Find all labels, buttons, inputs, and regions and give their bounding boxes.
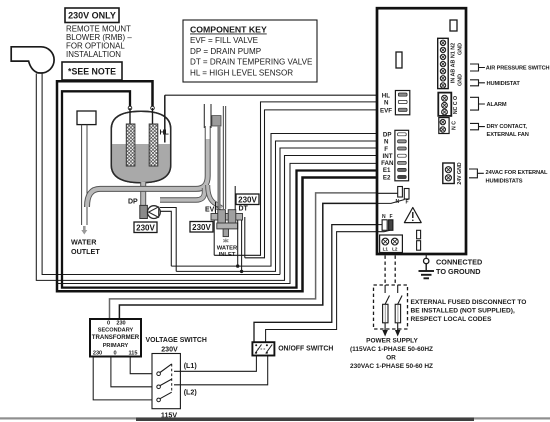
svg-text:ALARM: ALARM [487,102,507,108]
svg-text:PRIMARY: PRIMARY [103,343,129,349]
terminal block dry contact N C [439,118,458,134]
wire fuse F upper [119,203,378,319]
svg-text:*SEE NOTE: *SEE NOTE [68,67,116,77]
warning triangle [404,208,421,223]
svg-text:230: 230 [93,351,102,357]
svg-text:DT = DRAIN TEMPERING VALVE: DT = DRAIN TEMPERING VALVE [190,58,313,67]
svg-text:0: 0 [107,321,110,327]
svg-text:WATER: WATER [71,238,97,247]
wire N2 [176,141,378,271]
wire L2 to on/off switch [174,356,268,385]
terminal block L1 L2 [380,235,403,253]
wire fuse N upper [110,193,379,319]
wire transformer 0 to switch [111,357,157,387]
pipe drain horizontal run [87,126,208,207]
svg-text:AIR PRESSURE SWITCH: AIR PRESSURE SWITCH [486,66,550,72]
svg-text:L2: L2 [392,247,398,252]
wire EVF to valve [245,110,378,258]
board outline [377,8,466,254]
svg-text:HL = HIGH LEVEL SENSOR: HL = HIGH LEVEL SENSOR [190,68,293,77]
svg-text:GND: GND [458,74,464,86]
svg-text:DP: DP [383,132,392,139]
node electrode left terminal [128,106,132,110]
svg-text:RESPECT LOCAL CODES: RESPECT LOCAL CODES [411,316,492,323]
wire L1 to on/off switch [174,356,256,372]
svg-text:VOLTAGE SWITCH: VOLTAGE SWITCH [146,337,207,344]
svg-text:OR: OR [386,354,396,361]
jumper rects [417,230,421,239]
label power supply [350,337,433,370]
svg-text:230V ONLY: 230V ONLY [68,11,116,21]
svg-text:TO GROUND: TO GROUND [436,267,480,276]
svg-text:HUMIDISTATS: HUMIDISTATS [486,178,523,184]
svg-text:OUTLET: OUTLET [71,247,100,256]
pump DP impeller [148,206,161,219]
label external fused disconnect [411,299,527,323]
svg-text:EXTERNAL FAN: EXTERNAL FAN [487,132,529,138]
svg-text:230: 230 [116,321,125,327]
pump DP body [140,205,148,218]
svg-text:(L2): (L2) [184,388,198,396]
valve EVF/DT manifold [211,210,243,237]
label box 230V EVF [190,222,213,233]
wire fuse F lower [266,232,378,343]
svg-text:INT: INT [383,153,393,160]
svg-text:ON/OFF SWITCH: ON/OFF SWITCH [278,345,333,352]
svg-text:230VAC 1-PHASE 50-60 HZ: 230VAC 1-PHASE 50-60 HZ [350,363,433,370]
pipe standpipe upper white [206,126,210,139]
wire INT [285,156,379,281]
wire SEE NOTE tap [120,80,122,83]
svg-text:230V: 230V [136,223,155,232]
wire E2 thick loop (board E2 to electrode feed) [57,81,378,291]
wire pump lead lower [160,211,171,266]
wire FAN [57,163,378,283]
wire EVF left terminal [215,202,217,214]
svg-text:HL: HL [382,93,390,100]
svg-text:24VAC FOR EXTERNAL: 24VAC FOR EXTERNAL [486,170,549,176]
switch pole 3 [157,392,172,402]
remote mount blower RMB [11,47,54,73]
svg-text:POWER SUPPLY: POWER SUPPLY [366,337,418,344]
pointer 24VAC [469,169,484,178]
wire HL to board [165,94,378,96]
svg-text:TRANSFORMER: TRANSFORMER [92,334,140,341]
svg-text:SECONDARY: SECONDARY [98,328,134,334]
wire fuse N lower [254,225,378,343]
node electrode right terminal [151,106,155,110]
labels DP N F INT FAN E1 E2 [381,132,394,182]
svg-text:DP = DRAIN PUMP: DP = DRAIN PUMP [190,47,261,56]
water inlet spray icon [223,239,228,243]
on/off switch box [252,342,274,355]
dashed leads from L1 L2 [385,256,395,286]
wire DP [171,134,378,267]
supply arrows [385,329,398,331]
connector mid left [396,52,402,68]
pointer humidistat [470,80,485,86]
wire transformer 230 to switch [93,357,157,400]
terminal strip HL/N/EVF [395,91,409,115]
disconnect switch fuse L2 [395,285,402,329]
electrode left [126,108,135,166]
label box 230V pump [134,222,157,233]
svg-text:DRY CONTACT,: DRY CONTACT, [487,124,528,130]
svg-text:230V: 230V [161,346,178,354]
svg-text:(115VAC 1-PHASE 50-60HZ: (115VAC 1-PHASE 50-60HZ [350,346,433,353]
svg-text:DP: DP [128,199,138,206]
outlet fitting [77,111,96,125]
svg-text:F: F [406,200,409,206]
pipe DT supply [212,106,226,209]
water outlet arrow [81,226,87,235]
pipe fill cup [204,104,211,128]
svg-text:EVF: EVF [380,107,392,114]
switch pole 2 [157,379,172,389]
wire valve right tab down [244,217,246,258]
frame bottom gray bar [0,417,550,419]
wire F [280,148,378,275]
svg-text:0: 0 [113,351,116,357]
labels HL N EVF [380,93,392,115]
wire DT label leader [234,186,236,210]
svg-text:NC C O: NC C O [453,96,459,114]
svg-text:DT: DT [239,206,249,213]
svg-text:E2: E2 [383,174,391,181]
fuse pair upper N F [378,187,409,206]
label WATER INLET [217,246,238,259]
pointer alarm [470,97,485,110]
wire EVF solenoid down [237,220,239,266]
pipe pump outlet run [160,188,205,200]
wire N to valve [214,102,378,255]
label box SEE NOTE [62,62,122,80]
svg-text:CONNECTED: CONNECTED [436,258,482,267]
connector top right [450,20,457,31]
svg-text:230V: 230V [238,195,257,204]
svg-text:HL: HL [160,130,170,137]
node junction DT [240,270,243,273]
svg-text:HUMIDISTAT: HUMIDISTAT [487,81,521,87]
steam cylinder tank [110,111,172,184]
ground symbol connected to ground [419,254,435,278]
label WATER OUTLET [71,238,100,257]
fuse pair lower N F [378,214,393,232]
svg-text:F: F [384,146,388,153]
svg-text:GND: GND [458,43,464,55]
svg-text:F: F [390,214,393,220]
svg-text:230V: 230V [192,223,211,232]
disconnect switch fuse L1 [383,285,390,329]
label box 230V ONLY [65,8,119,23]
label box 230V DT [236,194,259,205]
component key box [183,20,317,82]
wire blower lead A [36,74,284,281]
electrode right [149,108,158,166]
terminal block 24V GND [443,162,463,184]
svg-text:BE INSTALLED (NOT SUPPLIED),: BE INSTALLED (NOT SUPPLIED), [411,308,515,315]
svg-text:EVF: EVF [205,206,219,213]
pipe EVF feed [208,185,222,208]
svg-text:N: N [382,214,386,220]
svg-text:WATER: WATER [217,246,238,252]
svg-text:COMPONENT KEY: COMPONENT KEY [190,25,267,35]
wire blower lead B [42,74,280,275]
HL high level sensor probe [164,95,166,142]
switch gang dashed link [171,364,173,392]
svg-text:EVF = FILL VALVE: EVF = FILL VALVE [190,36,259,45]
wire valve left tab down [213,220,215,255]
wire pump lead upper [160,208,176,272]
note text remote mount blower [66,25,132,60]
svg-text:115: 115 [128,351,137,357]
svg-text:L1: L1 [383,247,389,252]
switch pole 1 [157,364,172,376]
svg-text:N C: N C [452,121,458,130]
terminal block IN/AB/AB/N1/N2 [438,38,464,88]
svg-text:INSTALALTION: INSTALALTION [66,50,121,59]
terminal strip DP..E2 [395,130,409,181]
pipe tank drain to pump [140,182,146,205]
outlet pipe [82,125,87,225]
voltage switch box [152,354,180,409]
wire E1 thick loop (board E1 to electrode feed) [62,91,378,287]
wire transformer 115 to switch [130,357,157,374]
terminal block alarm O C NC [438,93,459,116]
svg-text:N: N [384,139,389,146]
transformer box [90,319,141,357]
svg-text:IN AB AB N1 N2: IN AB AB N1 N2 [451,43,457,83]
external disconnect dashed box [374,285,408,329]
svg-text:FAN: FAN [381,160,394,167]
svg-text:24V GND: 24V GND [457,162,463,184]
wire DT solenoid down [241,220,243,271]
svg-text:(L1): (L1) [184,362,198,370]
pointer air pressure switch [470,64,485,71]
svg-text:EXTERNAL FUSED DISCONNECT TO: EXTERNAL FUSED DISCONNECT TO [411,299,527,306]
pointer dry contact [470,123,485,129]
svg-text:E1: E1 [383,167,391,174]
svg-text:N: N [384,100,389,107]
node junction EVF [236,264,239,267]
